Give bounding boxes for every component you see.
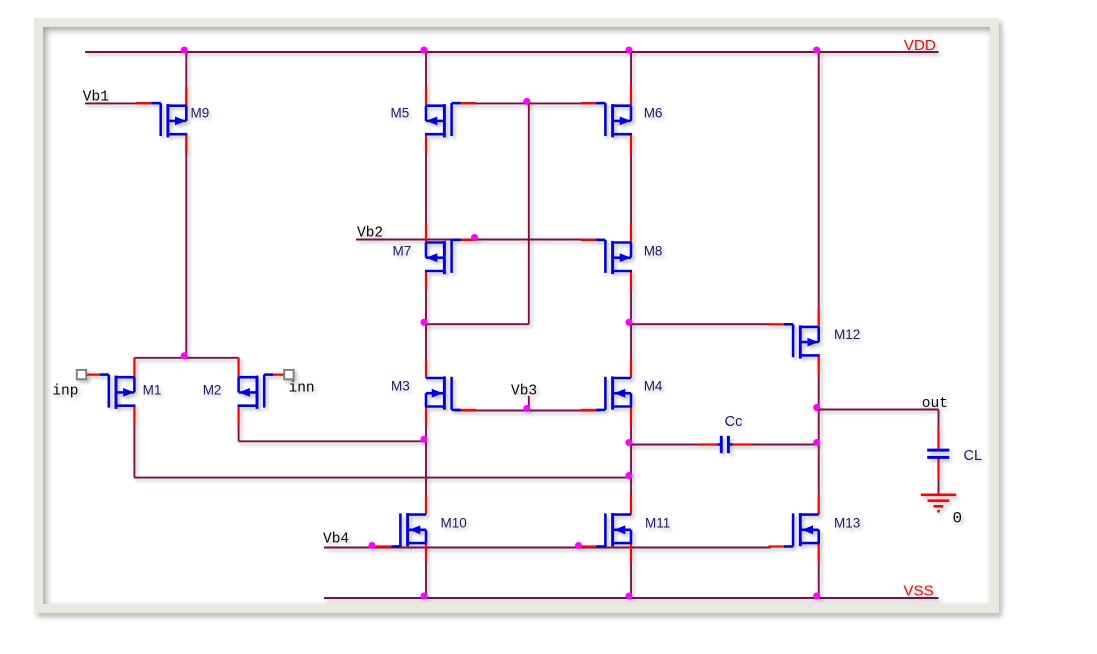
svg-text:Vb1: Vb1 <box>83 89 109 105</box>
svg-text:M11: M11 <box>645 516 670 531</box>
svg-text:Vb2: Vb2 <box>357 226 383 242</box>
svg-text:M8: M8 <box>644 243 663 258</box>
svg-text:Cc: Cc <box>725 414 743 430</box>
svg-text:0: 0 <box>953 510 963 528</box>
svg-text:inn: inn <box>289 381 315 397</box>
svg-text:VSS: VSS <box>903 583 933 600</box>
svg-text:M9: M9 <box>191 106 210 121</box>
svg-text:Vb3: Vb3 <box>511 384 537 400</box>
svg-text:M6: M6 <box>644 106 663 121</box>
svg-text:out: out <box>922 396 948 412</box>
svg-text:VDD: VDD <box>904 37 936 54</box>
svg-text:M12: M12 <box>834 327 860 342</box>
svg-text:M5: M5 <box>391 106 410 121</box>
svg-text:M7: M7 <box>393 243 412 258</box>
svg-text:M1: M1 <box>143 383 162 398</box>
svg-text:M4: M4 <box>644 378 663 393</box>
svg-text:M10: M10 <box>441 516 467 531</box>
svg-text:inp: inp <box>52 384 78 400</box>
svg-text:M13: M13 <box>834 516 860 531</box>
svg-text:Vb4: Vb4 <box>323 531 349 547</box>
svg-text:M2: M2 <box>203 383 222 398</box>
svg-text:CL: CL <box>964 448 983 464</box>
svg-text:M3: M3 <box>391 378 410 393</box>
